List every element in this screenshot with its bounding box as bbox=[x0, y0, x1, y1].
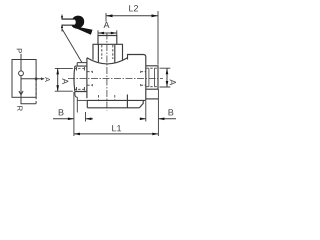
hex facet lines bbox=[98, 44, 114, 62]
arrowhead to A bbox=[41, 77, 45, 80]
left bore hidden lines bbox=[87, 72, 93, 86]
dimension L2 label bbox=[129, 5, 138, 11]
port R label bbox=[17, 106, 22, 110]
dimension A left line bbox=[57, 68, 59, 91]
collar top step bbox=[128, 55, 146, 101]
left port bottom shelf bbox=[77, 99, 87, 101]
A left top arrow bbox=[56, 68, 59, 74]
L2 right extension line bbox=[157, 11, 159, 65]
L1 line bbox=[74, 133, 158, 135]
body dome arc bbox=[87, 58, 128, 64]
dimension L1 label bbox=[112, 125, 121, 131]
right counterbore hidden ticks bbox=[140, 71, 142, 86]
port A label bbox=[45, 77, 50, 82]
B right outer arrow bbox=[158, 118, 164, 121]
A top right arrow bbox=[111, 32, 117, 35]
L2 left arrow bbox=[106, 14, 113, 17]
left port dashed thread lines bbox=[74, 69, 87, 90]
wire branch A bbox=[21, 78, 44, 80]
wrench size arrow down bbox=[61, 16, 63, 20]
left port end cap arc bbox=[73, 66, 76, 91]
wire ball to bottom bbox=[20, 76, 22, 98]
A top extension lines bbox=[98, 30, 117, 35]
ball circle bbox=[19, 71, 24, 76]
wire inside valve top bbox=[20, 60, 22, 72]
leader from wrench to hex bbox=[62, 30, 82, 63]
right port step under body face bbox=[146, 98, 159, 100]
left port neck top bbox=[77, 63, 87, 67]
B left extension lines bbox=[74, 92, 86, 136]
bottom right chamfer bbox=[139, 100, 143, 107]
B left inner arrow bbox=[86, 118, 92, 121]
right port hex bbox=[146, 66, 158, 89]
dimension B right label bbox=[169, 109, 174, 115]
top port stub bbox=[98, 36, 117, 45]
bottom bore hidden dashes bbox=[98, 95, 114, 100]
dimension B left label bbox=[59, 109, 64, 115]
schematic valve square bbox=[12, 60, 36, 98]
dimension A right line bbox=[166, 68, 168, 87]
B right line bbox=[140, 118, 176, 120]
horizontal centerline bbox=[68, 77, 163, 79]
wrench size arrow up bbox=[61, 24, 63, 28]
left hex corner ticks bbox=[77, 67, 85, 91]
A top left arrow bbox=[98, 32, 104, 35]
port P label bbox=[17, 49, 22, 53]
dimension A top label bbox=[104, 22, 110, 28]
bottom collar left edge bbox=[86, 100, 88, 107]
B right inner arrow bbox=[140, 118, 146, 121]
hex thread dashed lines bbox=[102, 45, 113, 59]
bottom boss inner edge bbox=[126, 95, 128, 108]
junction node bbox=[35, 77, 38, 80]
wrench icon bbox=[62, 16, 93, 35]
A right bottom arrow bbox=[166, 81, 169, 87]
A left extension lines bbox=[55, 68, 73, 91]
pilot line dashed bbox=[35, 79, 37, 104]
left port hex bbox=[75, 66, 87, 91]
dimension L2 line bbox=[106, 15, 158, 17]
L2 right arrow bbox=[152, 14, 159, 17]
dimension A left label bbox=[62, 78, 68, 84]
right port inner lines bbox=[149, 68, 155, 87]
wire R loop bbox=[21, 97, 36, 103]
flow arrowhead down bbox=[19, 91, 23, 95]
dimension A right label bbox=[170, 79, 176, 85]
left port bottom step bbox=[75, 92, 77, 113]
A right extension lines bbox=[160, 68, 171, 87]
wrench size dimension line bbox=[61, 15, 63, 32]
L1 right arrow bbox=[152, 133, 158, 136]
L1 left arrow bbox=[74, 133, 80, 136]
B left line bbox=[53, 118, 93, 120]
top hex nut bbox=[93, 44, 123, 60]
dimension A top line bbox=[98, 32, 117, 34]
A left bottom arrow bbox=[56, 85, 59, 91]
A right top arrow bbox=[166, 68, 169, 74]
B right extension lines bbox=[146, 89, 159, 136]
right bore hidden lines bbox=[141, 72, 146, 86]
right port thread dashed lines bbox=[146, 68, 157, 87]
bottom collar bottom edge bbox=[87, 107, 139, 109]
valve body left edge bbox=[86, 58, 88, 98]
wire P to valve bbox=[20, 54, 22, 60]
body bottom edge bbox=[87, 99, 146, 101]
L2 left extension line bbox=[105, 13, 107, 22]
left counterbore hidden ticks bbox=[91, 71, 93, 86]
B left outer arrow bbox=[68, 118, 74, 121]
vertical centerline bbox=[106, 33, 108, 111]
